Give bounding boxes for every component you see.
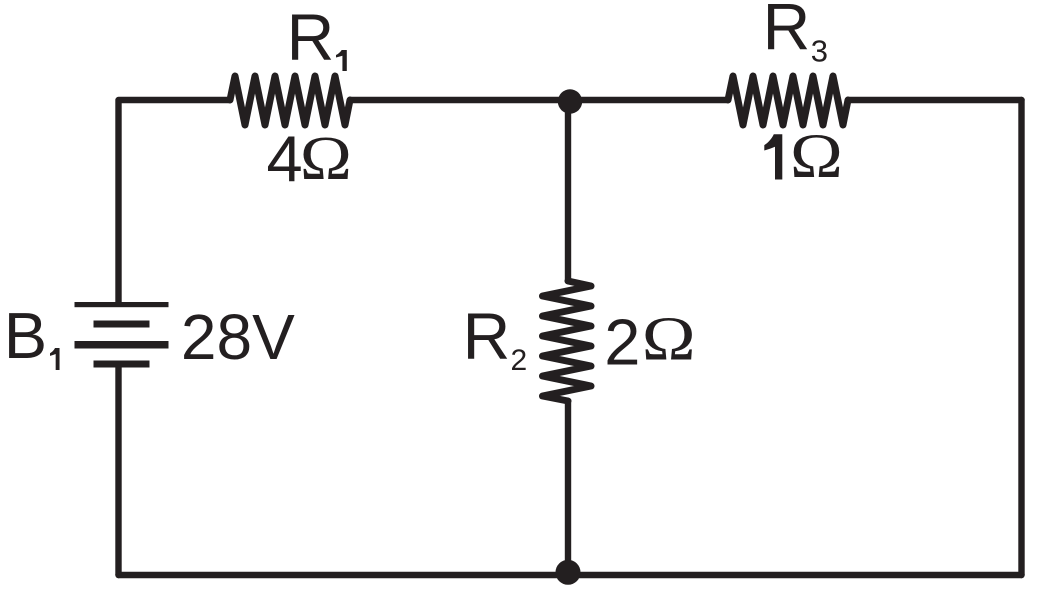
battery B1 plates [75, 302, 169, 368]
value label 1 ohm: omega [790, 121, 843, 192]
svg-text:B: B [4, 299, 47, 372]
wire: R1 to node A [350, 97, 568, 103]
svg-text:R: R [463, 299, 511, 373]
svg-text:Ω: Ω [642, 304, 696, 373]
svg-text:Ω: Ω [300, 124, 352, 193]
resistor R2 [543, 281, 592, 401]
wire: left rail upper (battery positive to top-left corner to R1) [119, 100, 231, 302]
node B junction dot [556, 560, 581, 585]
svg-text:R: R [763, 0, 811, 64]
svg-text:3: 3 [811, 34, 828, 69]
battery B1 plate 4 (short) [94, 361, 150, 368]
label B1: subscript 1 [50, 348, 60, 370]
value label 1 ohm: 1 [764, 134, 782, 179]
resistor R1 [230, 76, 350, 125]
wire: node A to R3 [568, 97, 728, 103]
wire: bottom rail left (node B to bottom-left corner) [119, 572, 569, 578]
svg-text:2: 2 [604, 305, 640, 378]
wire: node A to R2 [565, 101, 571, 281]
resistor R3 [728, 76, 848, 125]
label R1: subscript 1 [336, 50, 347, 71]
value label 4 ohm: omega [300, 124, 352, 193]
wire: right rail [1018, 100, 1024, 575]
svg-text:4: 4 [267, 122, 303, 195]
value label 2 ohm: omega [642, 304, 696, 373]
wire: bottom rail right (to node B) [568, 572, 1022, 578]
battery B1 plate 2 (short) [94, 321, 150, 328]
svg-text:28V: 28V [181, 301, 295, 373]
wire: left rail lower (bottom-left corner to battery negative) [115, 364, 121, 575]
svg-text:Ω: Ω [790, 121, 843, 192]
wire: R2 to node B [565, 401, 571, 575]
svg-text:2: 2 [511, 344, 528, 377]
battery B1 plate 1 (long) [75, 302, 169, 307]
battery B1 plate 3 (long) [75, 341, 169, 349]
svg-text:R: R [287, 0, 335, 74]
node A junction dot [558, 89, 582, 113]
wire: R3 to top-right corner [848, 97, 1022, 103]
